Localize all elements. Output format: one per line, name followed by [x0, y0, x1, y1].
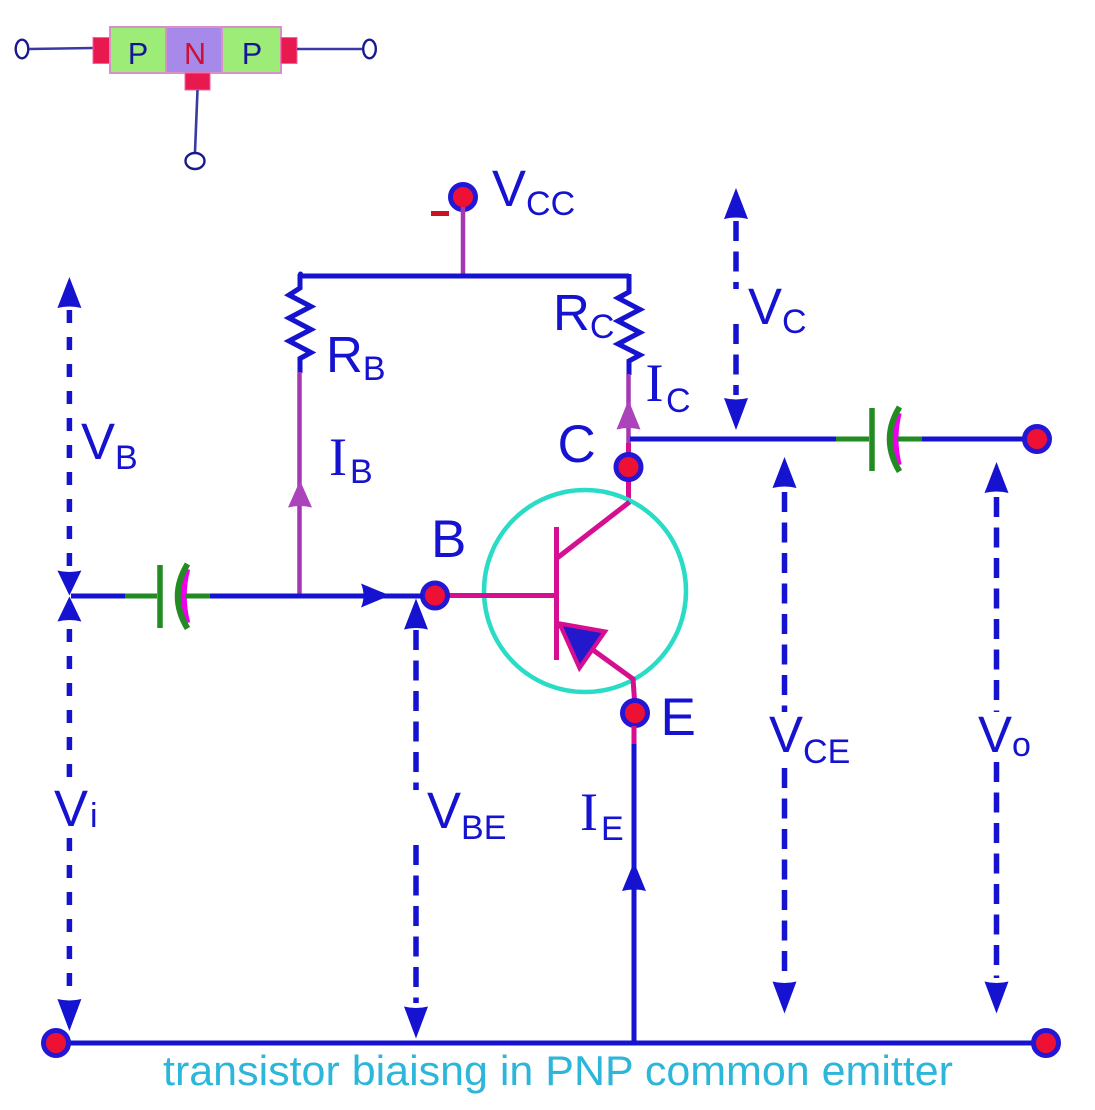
VCC minus sign [431, 211, 449, 216]
wire output capacitor right stub (green) [898, 437, 924, 442]
svg-text:P: P [128, 37, 148, 71]
VBE measure arrow down head [404, 1007, 428, 1039]
current arrow IC [617, 400, 641, 430]
PNP structure diagram: P region (right) [222, 27, 281, 73]
PNP structure diagram: right contact pad [281, 38, 297, 64]
VC measure dashed line lower [733, 324, 739, 395]
Vi measure dashed line upper [67, 629, 73, 788]
transistor emitter arrow (PNP) [560, 624, 606, 669]
capacitor C2 left plate [869, 408, 875, 471]
VBE measure arrow up head [404, 599, 428, 630]
node E dot [623, 701, 648, 726]
wire output capacitor left stub (green) [836, 437, 869, 442]
Vi measure arrow up head [57, 597, 81, 622]
VC measure arrow down head [724, 398, 748, 430]
VCE measure arrow up head [773, 457, 797, 488]
VCE measure arrow down head [773, 982, 797, 1014]
wire emitter down [632, 744, 637, 1043]
VBE measure dashed line upper [413, 630, 419, 790]
current arrow IB [288, 481, 312, 508]
svg-text:E: E [661, 688, 696, 747]
wire top rail [300, 274, 629, 279]
wire output left (blue) [630, 437, 838, 442]
PNP structure diagram: base terminal circle [186, 153, 205, 169]
VC measure dashed line upper [733, 221, 739, 289]
junction dot RB top [298, 272, 303, 277]
capacitor C2 right plate (arc) [890, 407, 900, 472]
capacitor C2 magenta fill [895, 413, 898, 465]
Vi measure arrow down head [57, 999, 81, 1031]
wire emitter stub (crimson) [632, 726, 637, 746]
wire input capacitor left stub (green) [125, 594, 157, 599]
input direction arrow [361, 584, 390, 608]
output terminal [1025, 427, 1050, 452]
ground terminal right [1034, 1031, 1059, 1056]
resistor RB [289, 274, 311, 373]
VB measure arrow up head [57, 277, 81, 308]
capacitor C1 magenta fill [184, 569, 188, 623]
transistor circle [484, 490, 686, 692]
wire VCC stub (purple) [461, 207, 466, 276]
svg-text:N: N [184, 37, 206, 71]
node B dot [423, 583, 448, 608]
PNP structure diagram: right terminal circle [363, 40, 376, 59]
svg-text:E: E [601, 810, 624, 848]
PNP structure diagram: base lead wire [195, 90, 198, 152]
PNP structure diagram: left terminal circle [16, 40, 29, 59]
PNP structure diagram: N region [166, 27, 222, 73]
VB measure dashed line [67, 310, 73, 569]
PNP structure diagram: right lead wire [297, 48, 362, 51]
PNP structure diagram: left contact pad [93, 38, 110, 64]
svg-text:I: I [646, 353, 664, 413]
transistor base lead [448, 593, 557, 598]
svg-text:B: B [350, 453, 373, 491]
PNP structure diagram: base contact pad [185, 73, 210, 90]
wire RC down (purple) [626, 374, 631, 445]
Vi measure dashed line lower [67, 838, 73, 996]
svg-text:B: B [431, 510, 466, 569]
wire RB to base rail (purple) [297, 372, 302, 596]
PNP structure diagram: P region (left) [110, 27, 166, 73]
transistor emitter lead [557, 624, 635, 701]
svg-text:I: I [329, 427, 347, 487]
VCE measure dashed line lower [782, 768, 788, 978]
wire input capacitor right stub (green) [186, 594, 212, 599]
Vo measure arrow up head [985, 462, 1009, 493]
ground rail [56, 1041, 1046, 1046]
Vo measure dashed line lower [994, 762, 1000, 978]
wire output to terminal (blue) [922, 437, 1024, 442]
Vo measure dashed line upper [994, 497, 1000, 712]
VBE measure dashed line lower [413, 845, 419, 1003]
PNP structure diagram: left lead wire [29, 48, 93, 49]
svg-text:P: P [242, 37, 262, 71]
capacitor C1 left plate [157, 565, 163, 628]
current arrow IE [622, 862, 646, 891]
capacitor C1 right plate (arc) [178, 564, 188, 629]
transistor collector lead [557, 502, 630, 559]
ground terminal left [44, 1031, 69, 1056]
wire collector vertical (crimson) [626, 443, 631, 504]
svg-text:C: C [666, 382, 691, 420]
VC measure arrow up head [724, 188, 748, 219]
VCC terminal [451, 185, 476, 210]
node C dot [616, 455, 641, 480]
VCE measure dashed line upper [782, 492, 788, 712]
transistor base bar [554, 527, 559, 660]
resistor RC [618, 274, 640, 375]
wire input to node B (blue) [210, 594, 423, 599]
VB measure arrow down head [57, 571, 81, 596]
svg-text:C: C [558, 415, 596, 474]
svg-text:transistor biaisng in PNP comm: transistor biaisng in PNP common emitter [163, 1047, 953, 1094]
wire input left (blue) [71, 594, 127, 599]
svg-text:I: I [580, 782, 598, 842]
Vo measure arrow down head [985, 982, 1009, 1014]
